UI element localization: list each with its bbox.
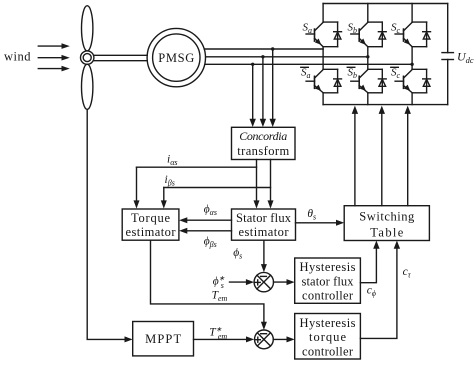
junction tap phase c <box>251 63 254 66</box>
svg-text:Hysteresis: Hysteresis <box>300 260 356 274</box>
block Concordia transform <box>232 127 296 159</box>
label i_beta-s <box>165 174 175 188</box>
transistor Sbar_c lower <box>395 69 427 93</box>
wire shaft upper line <box>94 54 147 56</box>
wire phase line a <box>204 48 323 50</box>
block Switching Table <box>344 206 429 241</box>
wire phi_s ref input <box>230 279 255 285</box>
wire i_beta-s branch to torque estimator <box>161 188 271 209</box>
svg-text:estimator: estimator <box>239 225 290 239</box>
junction phase b leg2 <box>366 55 369 58</box>
turbine blade upper <box>82 6 93 51</box>
svg-text:Torque: Torque <box>131 211 170 225</box>
wire current sense c to Concordia <box>250 64 256 127</box>
wire phase line c <box>206 63 413 65</box>
summer 1 flux comparator <box>254 272 273 291</box>
wire c_phi to switching table <box>360 241 379 283</box>
svg-text:wind: wind <box>4 50 31 64</box>
wire leg b segments <box>367 4 369 105</box>
label Sbar_a <box>301 67 311 81</box>
capacitor C dc-link <box>442 4 453 105</box>
svg-text:Sc: Sc <box>391 67 401 81</box>
wire wind arrow 2 <box>38 55 70 61</box>
svg-text:cτ: cτ <box>403 266 412 280</box>
svg-text:stator flux: stator flux <box>302 274 355 288</box>
svg-text:iβs: iβs <box>165 174 175 188</box>
svg-text:T∗em: T∗em <box>209 326 227 341</box>
wire summer1 to hysteresis flux controller <box>274 279 295 285</box>
label c_phi <box>367 285 376 299</box>
label U_dc <box>457 50 474 66</box>
wire theta_s to switching table <box>296 220 345 226</box>
wire gate signal b to converter <box>379 106 385 206</box>
diode D_b lower <box>378 69 386 93</box>
svg-text:θs: θs <box>307 208 316 222</box>
transistor S_c upper <box>395 22 427 47</box>
turbine blade lower <box>82 64 93 109</box>
label theta_s <box>307 208 316 222</box>
svg-text:torque: torque <box>309 330 346 344</box>
wire c_tau to switching table <box>360 241 400 339</box>
wire leg c segments <box>411 4 413 105</box>
wire T_em to summer 2 <box>151 240 267 330</box>
wire phase line b <box>206 56 368 58</box>
svg-text:PMSG: PMSG <box>158 51 194 65</box>
svg-text:Hysteresis: Hysteresis <box>300 316 356 330</box>
generator PMSG <box>147 28 205 86</box>
svg-text:ϕs: ϕs <box>233 247 242 261</box>
transistor Sbar_b lower <box>351 69 383 93</box>
node wind label <box>4 50 31 64</box>
svg-text:cϕ: cϕ <box>367 285 376 299</box>
label S_c <box>391 22 401 36</box>
transistor Sbar_a lower <box>306 69 338 93</box>
svg-text:controller: controller <box>302 289 354 303</box>
svg-text:Table: Table <box>370 226 403 240</box>
diode D_c lower <box>423 69 431 93</box>
svg-text:Sc: Sc <box>391 22 401 36</box>
label i_alpha-s <box>167 154 178 168</box>
wire current sense b to Concordia <box>260 57 266 127</box>
wire gate signal a to converter <box>352 106 358 206</box>
svg-text:ϕαs: ϕαs <box>204 204 217 218</box>
junction tap phase b <box>261 55 264 58</box>
block Hysteresis stator flux controller <box>295 258 361 303</box>
wire summer2 to hysteresis torque controller <box>273 336 294 342</box>
label S_b <box>348 22 358 36</box>
svg-text:Stator flux: Stator flux <box>236 211 292 225</box>
wire DC bus top <box>323 3 448 5</box>
transistor S_a upper <box>306 22 338 47</box>
turbine hub <box>81 51 94 64</box>
svg-text:Sa: Sa <box>301 67 311 81</box>
summer 2 torque comparator <box>255 330 274 349</box>
block Stator flux estimator <box>232 209 296 240</box>
svg-text:Concordia: Concordia <box>239 129 287 143</box>
label c_tau <box>403 266 412 280</box>
svg-text:Sb: Sb <box>348 22 358 36</box>
wire wind arrow 1 <box>38 43 70 49</box>
svg-text:Switching: Switching <box>359 210 415 224</box>
svg-text:estimator: estimator <box>126 225 177 239</box>
label phi_s <box>233 247 242 261</box>
wire gate signal c to converter <box>405 106 411 206</box>
wire leg a segments <box>322 4 324 105</box>
wire phi_s to summer 1 <box>261 240 267 272</box>
label S_a <box>303 22 313 36</box>
svg-text:iαs: iαs <box>167 154 178 168</box>
wire i_alpha-s branch to torque estimator <box>134 167 257 208</box>
label Sbar_b <box>347 67 357 81</box>
svg-text:Sa: Sa <box>303 22 313 36</box>
svg-text:Udc: Udc <box>457 50 474 66</box>
svg-text:transform: transform <box>237 144 289 158</box>
diode D_c upper <box>423 22 431 47</box>
svg-text:Tem: Tem <box>212 290 228 304</box>
label phi_s star <box>213 275 225 290</box>
svg-text:MPPT: MPPT <box>145 332 181 346</box>
block Hysteresis torque controller <box>295 314 361 360</box>
diode D_a lower <box>334 69 342 93</box>
svg-text:controller: controller <box>302 345 354 359</box>
block MPPT <box>133 322 194 356</box>
wire Concordia out alpha to stator flux estimator <box>254 160 260 209</box>
junction tap phase a <box>271 47 274 50</box>
wire wind arrow 3 <box>38 66 70 72</box>
label phi_beta-s <box>204 236 217 250</box>
block Torque estimator <box>122 209 179 240</box>
svg-text:Sb: Sb <box>348 67 358 81</box>
wire current sense a to Concordia <box>270 49 276 127</box>
label Sbar_c <box>391 67 401 81</box>
label T_em star <box>209 326 227 341</box>
wire phi_alpha-s stator flux estimator to torque estimator <box>179 217 231 223</box>
wire rotor speed to MPPT <box>87 109 133 342</box>
junction phase c leg3 <box>410 63 413 66</box>
label phi_alpha-s <box>204 204 217 218</box>
svg-text:ϕ∗s: ϕ∗s <box>213 275 225 290</box>
svg-text:ϕβs: ϕβs <box>204 236 217 250</box>
diode D_a upper <box>334 22 342 47</box>
wire Concordia out beta to stator flux estimator <box>268 160 274 209</box>
diode D_b upper <box>378 22 386 47</box>
transistor S_b upper <box>351 22 383 47</box>
wire DC bus bottom <box>323 104 448 106</box>
wire shaft lower line <box>94 60 147 62</box>
label T_em <box>212 290 228 304</box>
wire T_em ref MPPT to summer 2 <box>194 336 255 342</box>
wire phi_beta-s stator flux estimator to torque estimator <box>179 228 231 234</box>
